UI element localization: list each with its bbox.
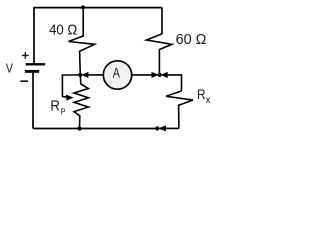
arrowhead ammeter right (points right into node) (152, 72, 158, 77)
svg-text:60 Ω: 60 Ω (176, 32, 207, 48)
svg-text:P: P (61, 107, 66, 117)
svg-text:R: R (50, 99, 60, 115)
node RP bottom (77, 126, 81, 130)
wire bottom rail (33, 128, 157, 130)
wire battery bottom lead (32, 73, 34, 129)
node top (junction of 40-ohm branch) (81, 5, 85, 9)
arrowhead Rx bottom (points left into node) (159, 126, 165, 131)
svg-text:x: x (206, 94, 211, 106)
node left bridge (junction of 40-ohm, RP, ammeter, wiper) (78, 73, 82, 77)
battery plus label (22, 52, 29, 59)
arrowhead ammeter left (points left into node) (82, 72, 88, 77)
battery V negative plate (25, 70, 39, 73)
arrowhead Rx top wire (points left into node) (162, 72, 168, 77)
node bottom right (Rx to bottom rail) (155, 126, 159, 130)
battery V positive plate (26, 63, 46, 65)
wire battery top lead (33, 8, 35, 64)
wire ammeter right (132, 74, 153, 76)
potentiometer RP wiper wire (62, 75, 80, 97)
ammeter A (103, 61, 131, 89)
wire Rx top (167, 75, 182, 91)
svg-text:A: A (113, 66, 121, 81)
wire top rail (33, 7, 162, 9)
svg-text:R: R (197, 87, 206, 103)
resistor 40 ohm (69, 8, 95, 75)
resistor Rx (166, 91, 193, 128)
wire ammeter left (88, 74, 104, 76)
node right bridge (junction of 60-ohm, Rx, ammeter) (158, 73, 162, 77)
svg-text:40 Ω: 40 Ω (49, 23, 77, 39)
battery minus label (20, 80, 28, 82)
resistor 60 ohm (147, 8, 173, 75)
potentiometer RP wiper arrowhead (66, 95, 72, 100)
resistor RP (potentiometer body) (74, 75, 88, 129)
svg-text:V: V (6, 61, 14, 75)
wire Rx bottom (166, 127, 179, 129)
